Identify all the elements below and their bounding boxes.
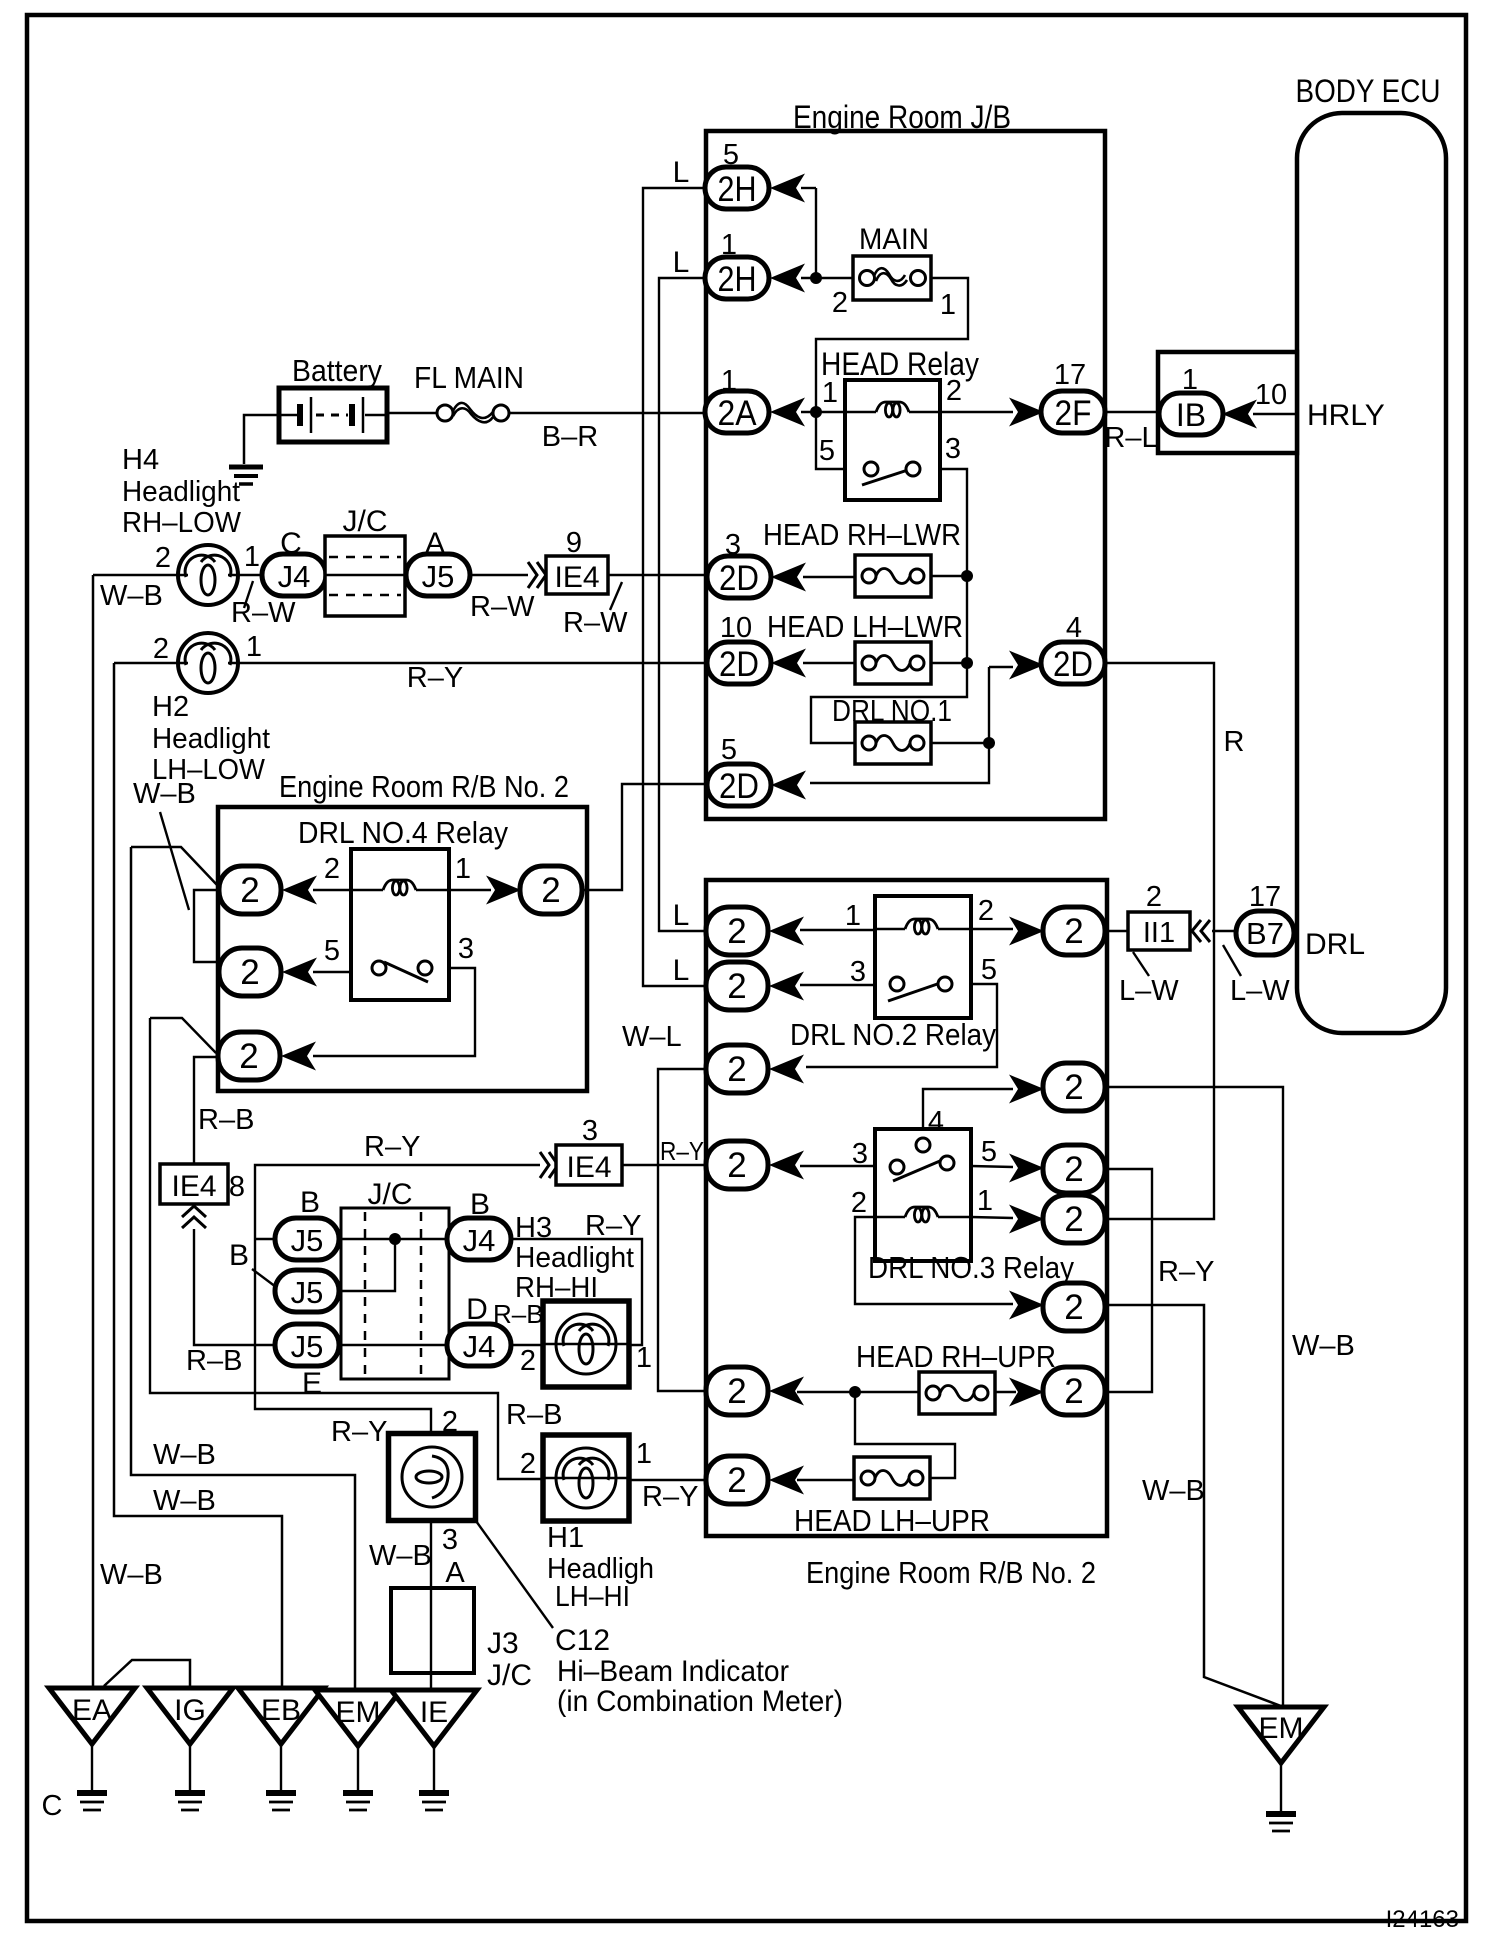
wire DRL NO.1 fuse to riser junction [931, 742, 989, 744]
svg-text:IE4: IE4 [171, 1170, 216, 1203]
svg-text:2: 2 [1064, 1068, 1083, 1107]
wire W-B rowE down to EM right [1107, 1305, 1281, 1706]
connector 2 rowD [1043, 1195, 1105, 1243]
svg-text:IE4: IE4 [566, 1151, 611, 1184]
chevrons into IE4 [528, 562, 546, 588]
wire fuse to rowF [995, 1391, 1016, 1393]
wire 2A to HEAD relay pin1 [801, 411, 845, 413]
connector IE4 (8) [160, 1164, 228, 1204]
svg-text:B–R: B–R [542, 421, 598, 453]
wire W-B DRL NO.4 row1 down and over to EM [131, 847, 355, 1692]
wire DRL NO.3 pin1 to rowD [971, 1217, 1013, 1218]
svg-text:2: 2 [727, 1461, 746, 1500]
wire W-B into row1 [131, 847, 218, 886]
wire IE4 to 2D(3) [608, 574, 708, 576]
svg-text:R–Y: R–Y [1158, 1256, 1214, 1288]
junction dot [389, 1233, 401, 1245]
arrow into IB [1222, 400, 1257, 429]
Engine Room J/B box [706, 131, 1105, 819]
svg-text:L: L [673, 156, 690, 189]
svg-text:3: 3 [458, 933, 474, 965]
svg-text:3: 3 [582, 1115, 598, 1147]
svg-text:2: 2 [978, 895, 994, 927]
arrow into rowA [1009, 917, 1044, 946]
junction connector J/C box [325, 536, 405, 616]
wire battery negative to ground [244, 415, 279, 464]
connector IB box [1158, 352, 1297, 453]
svg-text:H4: H4 [122, 444, 159, 476]
fuse DRL NO.1 [855, 722, 931, 764]
HEAD relay coil [845, 411, 876, 413]
connector 2H pin 1 [705, 257, 769, 299]
svg-text:EM: EM [1259, 1712, 1304, 1745]
arrow into row2 [282, 958, 317, 987]
wire arrow to DRL NO.2 pin3 [800, 984, 875, 986]
connector 2 row1 [219, 866, 281, 914]
connector J5 row3 E [275, 1324, 339, 1366]
svg-text:I24163: I24163 [1386, 1906, 1459, 1933]
arrow into rowF [1009, 1378, 1044, 1407]
wire J5(B) to J4(B) [339, 1238, 447, 1241]
svg-text:HEAD RH–LWR: HEAD RH–LWR [763, 517, 961, 552]
wire rowA to II1 [1107, 930, 1128, 932]
svg-text:10: 10 [720, 612, 752, 644]
label R-W with leader [244, 581, 253, 608]
svg-text:2: 2 [946, 375, 962, 407]
wire DRL NO.3 pin5 to rowC [971, 1166, 1013, 1167]
svg-text:2: 2 [541, 871, 560, 910]
svg-text:3: 3 [442, 1524, 458, 1556]
svg-text:2: 2 [1064, 1372, 1083, 1411]
wire MAIN pin1 around to 2A node [816, 278, 968, 412]
svg-text:J/C: J/C [368, 1178, 413, 1211]
svg-text:EB: EB [261, 1694, 301, 1727]
fuse HEAD LH-LWR [855, 642, 931, 684]
connector 2 rowA [1043, 907, 1105, 955]
svg-text:H2: H2 [152, 691, 189, 723]
wire J5(E) to J4(D) [339, 1344, 447, 1347]
svg-text:2: 2 [324, 853, 340, 885]
wire B-R fusible link to 2A [509, 412, 706, 415]
ground point EA [49, 1688, 135, 1744]
svg-text:IE4: IE4 [554, 561, 599, 594]
wire J5 row2 to junction [339, 1239, 395, 1291]
wire arrow to DRL NO.2 pin1 [800, 929, 875, 931]
arrow into right 2 [486, 876, 521, 905]
connector 2D pin 3 [707, 556, 771, 598]
svg-text:R–Y: R–Y [585, 1210, 641, 1242]
connector 2D pin 10 [707, 642, 771, 684]
wire IE4(8) down to J5(E) [194, 1229, 275, 1345]
svg-text:E: E [302, 1367, 322, 1400]
headlight H1 LH-HI [543, 1435, 629, 1521]
connector J4 row D [447, 1324, 511, 1366]
wire R-B DRL NO.4 row3 down and over to H1 pin2 [150, 1018, 543, 1479]
wire IE4(3) to box2 row4 R-Y [622, 1164, 708, 1166]
fuse HEAD RH-LWR [855, 555, 931, 597]
arrow into 2D(3) [771, 563, 806, 592]
wire W-B rowB down to EM right [1107, 1087, 1283, 1707]
wire arrow to relay pin2 [313, 889, 351, 891]
DRL NO.3 switch [893, 1158, 947, 1181]
arrow into row2 [769, 972, 804, 1001]
svg-text:D: D [466, 1293, 488, 1326]
svg-text:J5: J5 [291, 1275, 324, 1310]
connector 2 row4 [706, 1141, 768, 1189]
arrow into 2D(10) [771, 649, 806, 678]
wire H2 pin1 R-Y to 2D(10) [238, 662, 708, 664]
svg-text:J4: J4 [278, 559, 311, 594]
bracket jumper row1-row2 [194, 890, 218, 962]
ground point IE [391, 1690, 477, 1746]
svg-text:3: 3 [852, 1138, 868, 1170]
wire arrow to fuse HEAD RH-UPR [797, 1391, 919, 1393]
svg-text:B: B [229, 1239, 249, 1272]
label L-W with leader [1223, 945, 1241, 976]
svg-text:5: 5 [819, 435, 835, 467]
svg-text:5: 5 [981, 1136, 997, 1168]
svg-text:8: 8 [229, 1171, 245, 1203]
svg-text:DRL NO.4 Relay: DRL NO.4 Relay [298, 815, 508, 850]
Engine Room R/B No.2 box [218, 807, 587, 1091]
svg-text:Headlight: Headlight [152, 723, 270, 755]
svg-text:R–Y: R–Y [642, 1481, 698, 1513]
svg-text:IE: IE [420, 1696, 448, 1729]
svg-text:2: 2 [727, 967, 746, 1006]
svg-text:2: 2 [851, 1187, 867, 1219]
DRL NO.4 switch [384, 962, 428, 982]
svg-text:2D: 2D [719, 559, 759, 598]
indicator lamp C12 [389, 1434, 476, 1521]
svg-text:2: 2 [520, 1345, 536, 1377]
jumper EA to IG [104, 1660, 190, 1688]
wire DRL NO.2 pin5 down to row3 [806, 984, 997, 1067]
wire 2D(3) to fuse [803, 576, 855, 578]
wire 2F to IB R-L [1105, 411, 1160, 413]
connector IB [1159, 393, 1223, 435]
svg-text:2A: 2A [718, 394, 758, 433]
svg-text:J/C: J/C [343, 505, 388, 538]
wire R from 2D(4) down to rowD [1105, 663, 1214, 1219]
svg-text:W–B: W–B [153, 1485, 216, 1517]
svg-text:2: 2 [1064, 1150, 1083, 1189]
svg-text:R–Y: R–Y [364, 1131, 420, 1163]
svg-text:2: 2 [1064, 1200, 1083, 1239]
wire fuse to pin3 riser [931, 575, 967, 577]
headlight H2 LH-LOW [178, 633, 238, 693]
connector J5 row2 [275, 1270, 339, 1312]
svg-text:Headlight: Headlight [515, 1242, 634, 1274]
svg-text:HEAD LH–LWR: HEAD LH–LWR [767, 609, 963, 644]
arrow into 2F [1009, 398, 1044, 427]
svg-text:5: 5 [981, 954, 997, 986]
wire battery to fusible link [387, 412, 437, 415]
wire W-B H4 down to EA [92, 575, 95, 1688]
connector 2 rowB [1043, 1063, 1105, 1111]
svg-text:A: A [445, 1557, 465, 1589]
wire branch to J5 row1 [255, 1238, 275, 1240]
relay DRL NO.4 [351, 849, 449, 1000]
svg-text:H1: H1 [547, 1522, 584, 1554]
svg-text:2: 2 [727, 912, 746, 951]
leader to C12 label [476, 1521, 553, 1628]
svg-text:L–W: L–W [1230, 975, 1290, 1007]
svg-text:1: 1 [977, 1185, 993, 1217]
wire DRL NO.3 pin4 up to rowB [923, 1089, 1013, 1135]
wire L from 2H(5) down to R/B No.2 row2 [643, 188, 706, 986]
arrow into row4 [769, 1151, 804, 1180]
svg-text:J5: J5 [291, 1329, 324, 1364]
wire DRL NO.3 pin2 down to rowE [855, 1217, 1013, 1304]
svg-text:Battery: Battery [292, 353, 382, 388]
connector J4 row B [447, 1218, 511, 1260]
svg-text:2: 2 [727, 1146, 746, 1185]
junction dot [849, 1386, 861, 1398]
svg-text:LH–HI: LH–HI [555, 1581, 630, 1613]
headlight H4 RH-LOW [178, 545, 238, 605]
svg-text:L: L [673, 246, 690, 279]
wire relay pin3 down the fuse chain [811, 469, 967, 743]
svg-text:W–B: W–B [1292, 1330, 1355, 1362]
svg-text:J5: J5 [422, 559, 455, 594]
svg-text:W–B: W–B [100, 1559, 163, 1591]
wire J4(D) to H3 pin2 [511, 1344, 543, 1346]
svg-text:J3: J3 [487, 1627, 519, 1660]
wire relay pin3 down to row3 [313, 968, 475, 1056]
svg-text:DRL NO.2 Relay: DRL NO.2 Relay [790, 1017, 996, 1052]
wire J4 to J5 through J/C [326, 574, 407, 577]
DRL NO.2 switch [888, 980, 949, 1001]
svg-text:R–B: R–B [506, 1399, 562, 1431]
svg-text:(in Combination Meter): (in Combination Meter) [557, 1685, 843, 1718]
svg-text:HEAD RH–UPR: HEAD RH–UPR [856, 1339, 1056, 1374]
svg-text:2: 2 [1064, 1288, 1083, 1327]
connector IE4 (3) [556, 1145, 622, 1185]
arrow into row6 [769, 1377, 804, 1406]
svg-text:2F: 2F [1055, 394, 1092, 433]
svg-text:R–W: R–W [470, 591, 535, 623]
arrow into 2H(5) [770, 174, 805, 203]
fuse HEAD RH-UPR [919, 1372, 995, 1414]
svg-text:2: 2 [1064, 912, 1083, 951]
svg-text:2: 2 [832, 287, 848, 319]
svg-text:RH–LOW: RH–LOW [122, 507, 242, 539]
wire R-Y rowC loop to rowF [1107, 1169, 1152, 1392]
wire H4 pin2 W-B [93, 574, 178, 577]
svg-text:17: 17 [1054, 359, 1086, 391]
connector 2 row2 [219, 948, 281, 996]
connector 2A pin 1 [705, 391, 769, 433]
relay HEAD [845, 380, 940, 500]
connector 2D pin 5 [707, 764, 771, 806]
chevrons out of II1 [1192, 920, 1210, 942]
svg-text:10: 10 [1255, 379, 1287, 411]
wire 2A node to relay pin5 [816, 412, 845, 469]
connector 2D pin 4 [1041, 642, 1105, 684]
ground point EM [315, 1690, 401, 1746]
wire H1 pin1 to box2 row7 [629, 1479, 708, 1481]
svg-text:B7: B7 [1246, 916, 1284, 951]
relay DRL NO.2 [875, 896, 971, 1018]
svg-text:L: L [673, 899, 690, 932]
svg-text:4: 4 [1066, 612, 1082, 644]
svg-text:HRLY: HRLY [1307, 399, 1385, 432]
wire W-B H2 down and over to EB [114, 663, 282, 1690]
chevrons below IE4(8) [182, 1206, 206, 1228]
svg-text:EM: EM [336, 1696, 381, 1729]
connector 2 row3 [218, 1032, 280, 1080]
svg-text:2: 2 [240, 871, 259, 910]
svg-text:R: R [1224, 726, 1245, 758]
arrow into 2H(1) [770, 264, 805, 293]
arrow into row7 [769, 1466, 804, 1495]
connector 2 rowC [1043, 1145, 1105, 1193]
label L-W with leader [1133, 952, 1149, 976]
svg-text:2: 2 [153, 633, 169, 665]
svg-text:2: 2 [239, 1037, 258, 1076]
svg-text:R–W: R–W [563, 607, 628, 639]
connector 2 rowF [1043, 1367, 1105, 1415]
ground point EB [238, 1688, 324, 1744]
arrow into rowD [1009, 1205, 1044, 1234]
svg-text:Engine Room R/B No. 2: Engine Room R/B No. 2 [279, 769, 569, 804]
wire fuse to pin3 riser [931, 662, 967, 664]
connector 2 rowE [1043, 1283, 1105, 1331]
svg-text:II1: II1 [1143, 917, 1175, 949]
connector 2 row3 [706, 1045, 768, 1093]
DRL NO.3 pin4 contact [916, 1138, 930, 1152]
svg-text:Engine Room R/B No. 2: Engine Room R/B No. 2 [806, 1555, 1096, 1590]
svg-text:Hi–Beam Indicator: Hi–Beam Indicator [557, 1655, 789, 1688]
relay DRL NO.3 [875, 1129, 971, 1261]
connector 2 row7 [706, 1456, 768, 1504]
wire H2 pin2 W-B [114, 662, 178, 665]
connector 2F pin 17 [1041, 391, 1105, 433]
connector IE4 (9) [546, 556, 608, 594]
ground point IG [147, 1688, 233, 1744]
arrow into row1 [769, 917, 804, 946]
svg-text:C: C [42, 1790, 63, 1822]
svg-text:DRL: DRL [1305, 928, 1365, 961]
wire junction down to HEAD LH-UPR fuse [855, 1392, 955, 1478]
connector 2 row1 [706, 907, 768, 955]
svg-text:R–Y: R–Y [331, 1416, 387, 1448]
wire W-L row3 to row6 [658, 1069, 706, 1391]
svg-text:1: 1 [940, 289, 956, 321]
HEAD relay switch [862, 467, 917, 485]
svg-text:J5: J5 [291, 1223, 324, 1258]
BODY ECU outline [1297, 113, 1446, 1033]
wire HRLY to IB [1253, 413, 1297, 415]
Engine Room R/B No.2 box (lower) [706, 880, 1107, 1536]
wire 2D(10) to fuse [803, 662, 855, 664]
svg-text:EA: EA [72, 1694, 112, 1727]
svg-text:MAIN: MAIN [859, 223, 929, 256]
DRL NO.4 coil [351, 889, 383, 891]
svg-text:IG: IG [174, 1694, 206, 1727]
wire row3 to IE4(8) [194, 1057, 218, 1164]
svg-text:R–B: R–B [186, 1345, 242, 1377]
arrow into rowE [1009, 1291, 1044, 1320]
svg-text:3: 3 [850, 956, 866, 988]
svg-text:J4: J4 [463, 1329, 496, 1364]
chevrons into IE4(3) [540, 1152, 558, 1178]
svg-text:2: 2 [520, 1448, 536, 1480]
riser to 2D(4) arrow and down to 2D(5) [810, 667, 989, 783]
svg-text:1: 1 [246, 631, 262, 663]
svg-text:1: 1 [845, 900, 861, 932]
arrow into 2A [770, 398, 805, 427]
wire II1 to B7 [1212, 930, 1238, 932]
svg-text:W–B: W–B [1142, 1475, 1205, 1507]
wire J5 to IE4 R-W [470, 574, 528, 577]
svg-text:W–B: W–B [100, 580, 163, 612]
svg-text:W–L: W–L [622, 1021, 682, 1053]
svg-text:C12: C12 [555, 1624, 610, 1657]
wire through C12 down to J3 and IE [430, 1521, 432, 1690]
wire H4 pin1 to J4 [238, 574, 263, 577]
battery [279, 388, 387, 442]
svg-text:J4: J4 [463, 1223, 496, 1258]
wire L from 2H(1) down to R/B No.2 row1 [659, 278, 706, 931]
connector 2 row2 [706, 962, 768, 1010]
svg-text:2H: 2H [718, 170, 757, 209]
svg-text:17: 17 [1249, 881, 1281, 913]
svg-text:9: 9 [566, 527, 582, 559]
wire R-B from row3 [150, 1018, 216, 1053]
svg-text:1: 1 [455, 853, 471, 885]
arrow into 2D(5) [771, 771, 806, 800]
svg-text:R–Y: R–Y [407, 662, 463, 694]
svg-text:2D: 2D [1053, 645, 1093, 684]
ground battery [229, 467, 263, 484]
wire arrow to relay pin5 [313, 971, 351, 973]
svg-text:L: L [673, 954, 690, 987]
arrow into row1 [282, 876, 317, 905]
svg-text:DRL NO.3 Relay: DRL NO.3 Relay [868, 1250, 1074, 1285]
arrow into 2D(4) [1009, 651, 1044, 680]
connector J5 (A) [406, 554, 470, 596]
label R-W with leader [610, 582, 622, 610]
svg-text:2H: 2H [718, 260, 757, 299]
wire R-Y from IE4(3) across to C12 [255, 1165, 540, 1435]
arrow into rowC [1009, 1154, 1044, 1183]
wire relay pin2 to 2F [940, 411, 1013, 413]
connector J3 J/C box [391, 1588, 474, 1673]
svg-text:5: 5 [721, 734, 737, 766]
wire relay pin1 to output [449, 889, 491, 891]
headlight H3 RH-HI [543, 1301, 629, 1387]
svg-text:J/C: J/C [487, 1659, 532, 1692]
svg-text:2: 2 [240, 953, 259, 992]
connector J5 row1 [275, 1218, 339, 1260]
svg-text:W–B: W–B [369, 1540, 432, 1572]
wire J4(B) over and down to H3 pin1 [511, 1239, 642, 1345]
svg-text:FL MAIN: FL MAIN [414, 360, 524, 395]
svg-text:1: 1 [244, 541, 260, 573]
svg-text:L–W: L–W [1119, 975, 1179, 1007]
junction dot [810, 272, 822, 284]
connector B7 [1236, 911, 1294, 955]
junction dot [961, 570, 973, 582]
arrow into rowB [1009, 1075, 1044, 1104]
svg-text:2: 2 [727, 1372, 746, 1411]
connector 2 output [520, 866, 582, 914]
svg-text:2D: 2D [719, 767, 759, 806]
svg-text:1: 1 [822, 377, 838, 409]
connector 2H pin 5 [705, 167, 769, 209]
svg-text:R–Y: R–Y [660, 1136, 704, 1166]
